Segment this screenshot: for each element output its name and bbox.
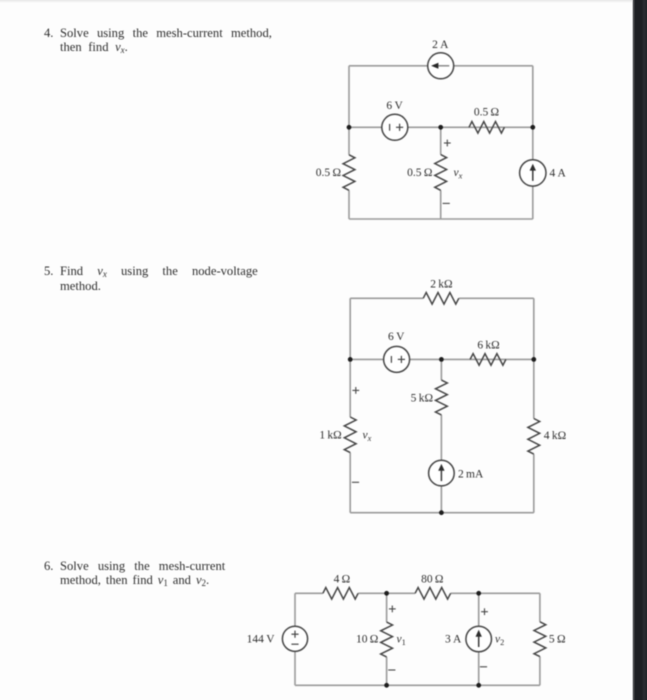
svg-text:vx: vx (454, 167, 463, 180)
svg-text:6 V: 6 V (386, 100, 403, 112)
svg-text:0.5 Ω: 0.5 Ω (474, 107, 499, 119)
svg-text:v2: v2 (495, 634, 504, 647)
svg-text:6 kΩ: 6 kΩ (477, 339, 499, 351)
svg-text:3 A: 3 A (445, 634, 462, 646)
svg-text:4 kΩ: 4 kΩ (544, 430, 566, 442)
svg-text:0.5 Ω: 0.5 Ω (316, 167, 341, 179)
svg-text:6 V: 6 V (388, 331, 405, 343)
svg-text:v1: v1 (397, 634, 406, 647)
svg-text:5 kΩ: 5 kΩ (411, 393, 433, 405)
svg-text:10 Ω: 10 Ω (356, 634, 378, 646)
svg-text:1 kΩ: 1 kΩ (319, 430, 341, 442)
svg-text:2 kΩ: 2 kΩ (430, 279, 452, 291)
svg-text:2 mA: 2 mA (458, 468, 484, 480)
svg-text:0.5 Ω: 0.5 Ω (407, 167, 432, 179)
svg-text:2 A: 2 A (432, 39, 449, 51)
svg-text:80 Ω: 80 Ω (421, 573, 443, 585)
svg-text:144 V: 144 V (247, 634, 276, 646)
svg-text:4 Ω: 4 Ω (334, 573, 351, 585)
svg-text:4 A: 4 A (550, 168, 567, 180)
svg-text:vx: vx (363, 430, 372, 443)
svg-text:5 Ω: 5 Ω (549, 634, 566, 646)
